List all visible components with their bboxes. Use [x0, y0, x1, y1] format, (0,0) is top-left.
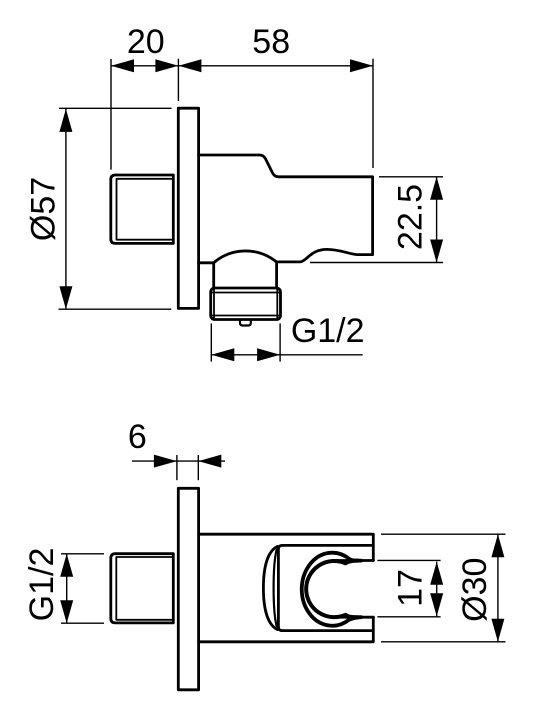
- svg-text:17: 17: [392, 569, 430, 607]
- svg-text:58: 58: [252, 23, 290, 61]
- svg-text:Ø30: Ø30: [456, 558, 494, 622]
- svg-text:20: 20: [127, 23, 165, 61]
- svg-text:6: 6: [128, 418, 147, 456]
- svg-text:22.5: 22.5: [392, 184, 430, 250]
- svg-text:G1/2: G1/2: [23, 548, 61, 622]
- svg-text:G1/2: G1/2: [291, 312, 365, 350]
- svg-text:Ø57: Ø57: [25, 177, 63, 241]
